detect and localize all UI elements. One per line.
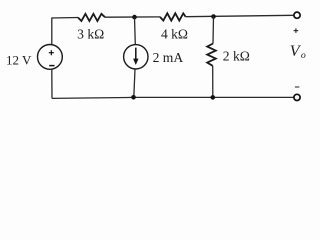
terminal (bottom right, open circle) [294, 94, 300, 100]
minus sign at output terminal [295, 86, 299, 88]
resistor 2 kΩ (vertical zigzag) [207, 44, 216, 66]
svg-text:3 kΩ: 3 kΩ [77, 27, 104, 42]
svg-text:o: o [301, 50, 306, 61]
svg-text:12 V: 12 V [6, 52, 32, 67]
wire: 2k resistor bottom to bottom rail [212, 66, 214, 98]
wire: top node A down to current source [134, 17, 137, 45]
plus sign at output terminal [294, 28, 299, 33]
svg-text:4 kΩ: 4 kΩ [161, 27, 188, 42]
resistor 4 kΩ (top middle zigzag) [160, 13, 186, 20]
minus sign inside source [49, 65, 54, 67]
current source I1 2 mA (circle with down arrow) [124, 45, 148, 69]
wire: 4k resistor to top-right terminal through node B [186, 15, 294, 16]
node A junction dot (top of current source) [132, 15, 137, 20]
bottom rail wire [52, 97, 294, 98]
plus sign inside source [49, 50, 54, 55]
terminal (top right, open circle) [294, 12, 300, 18]
arrow inside current source [135, 48, 137, 60]
wire: voltage source bottom to bottom rail [51, 69, 53, 98]
voltage source V1 12 V [38, 45, 63, 70]
junction dot (bottom of current source) [131, 95, 136, 100]
svg-text:2 mA: 2 mA [153, 50, 184, 65]
junction dot (bottom of 2k resistor) [211, 95, 216, 100]
wire: 3k resistor to 4k resistor through node A [105, 16, 160, 18]
node B junction dot (top of 2k resistor) [211, 14, 216, 19]
wire: node B down to 2k resistor [212, 17, 215, 44]
wire: current source bottom to bottom rail [134, 69, 135, 97]
svg-text:2 kΩ: 2 kΩ [223, 49, 250, 64]
resistor 3 kΩ (top left zigzag) [78, 14, 105, 21]
wire: left vertical + top-left segment [52, 18, 78, 46]
